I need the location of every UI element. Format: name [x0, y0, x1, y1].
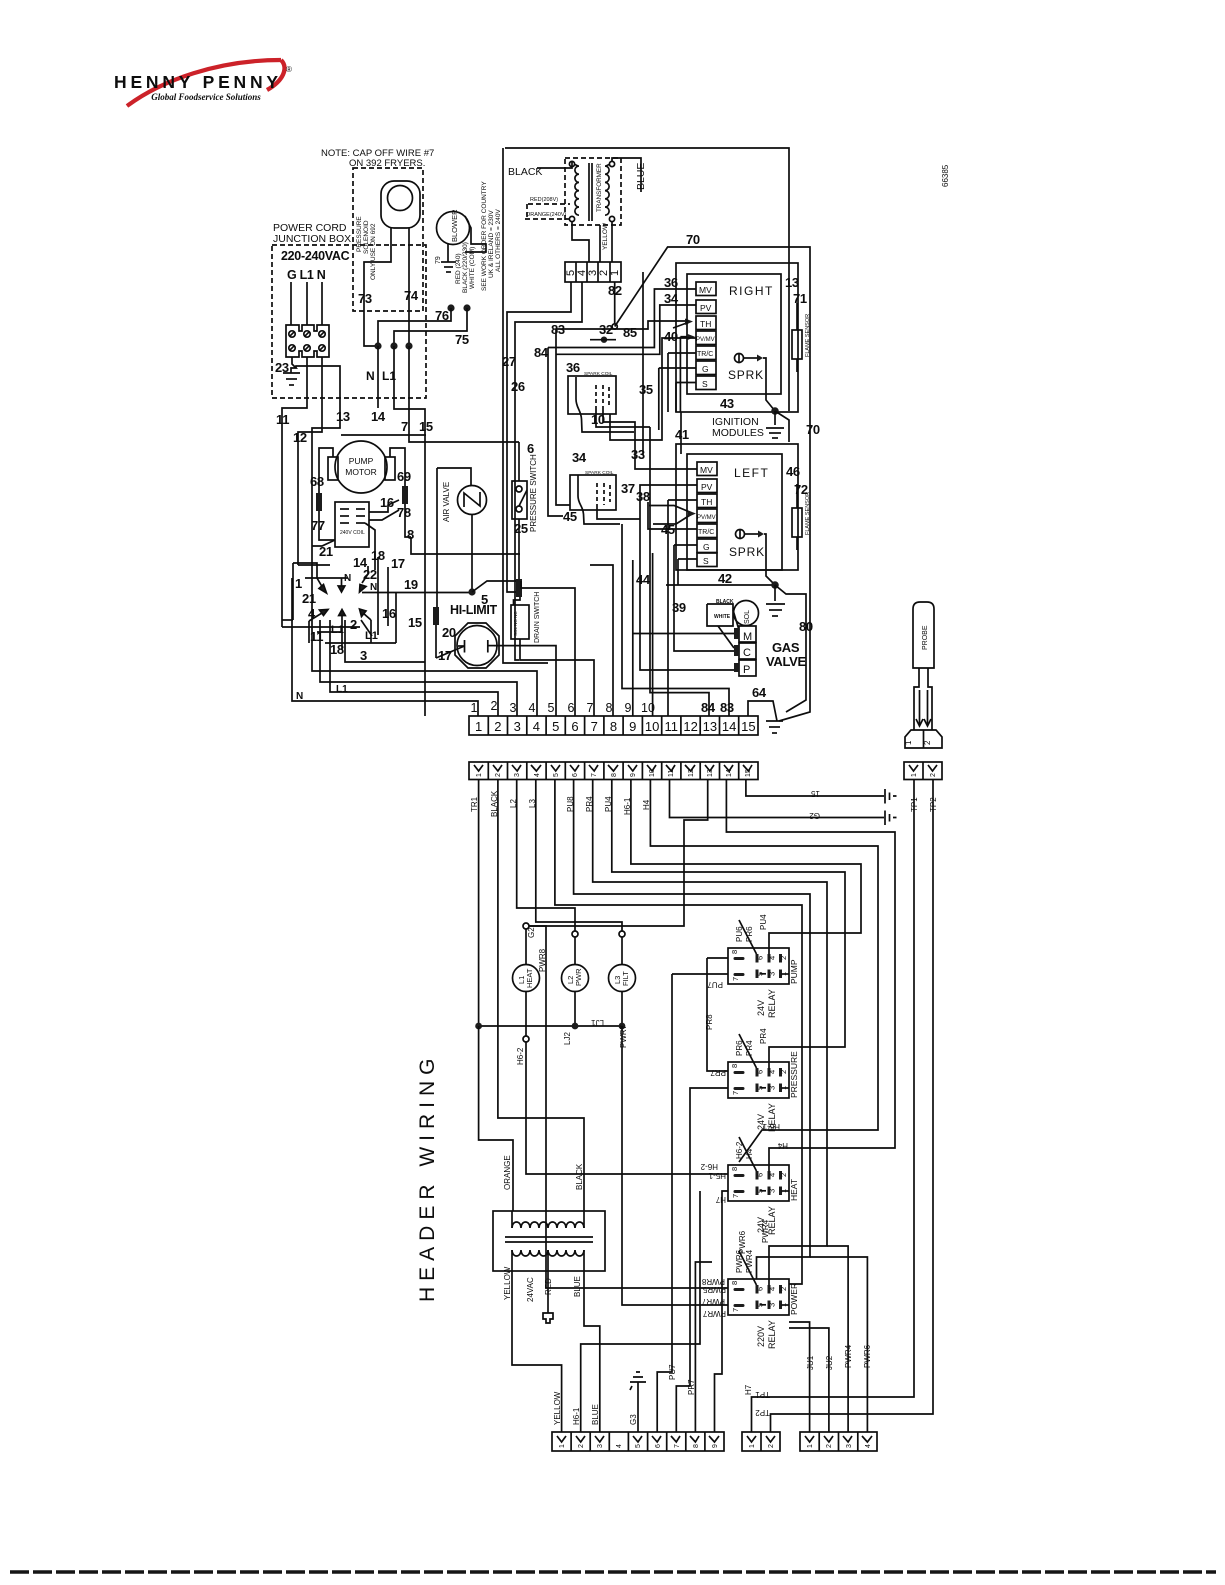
- svg-text:21: 21: [302, 591, 316, 606]
- svg-text:15: 15: [811, 789, 820, 798]
- svg-text:1: 1: [904, 740, 913, 745]
- wire number labels above strip: [471, 699, 655, 715]
- svg-text:2: 2: [779, 1173, 788, 1177]
- wire PWR7 down: [622, 1026, 728, 1305]
- svg-text:8: 8: [730, 1064, 739, 1068]
- svg-text:3: 3: [768, 1189, 777, 1193]
- svg-text:ORANGE(240V): ORANGE(240V): [526, 212, 567, 218]
- svg-text:BLOWER: BLOWER: [450, 209, 459, 242]
- probe P1: [913, 602, 934, 668]
- svg-text:HI-LIMIT: HI-LIMIT: [450, 603, 498, 617]
- svg-text:9: 9: [625, 701, 632, 715]
- ignition module LEFT U2: [687, 454, 782, 570]
- RED plug: [547, 1271, 549, 1313]
- svg-text:6: 6: [756, 1287, 765, 1291]
- wire N: [321, 282, 323, 325]
- bottom connector J2 1-9: [552, 1432, 724, 1451]
- svg-text:RELAY: RELAY: [767, 989, 777, 1018]
- svg-text:L1: L1: [365, 630, 378, 642]
- svg-text:78: 78: [397, 505, 411, 520]
- wire H6-2 down: [526, 1042, 728, 1174]
- svg-text:79: 79: [435, 256, 442, 264]
- svg-text:MV: MV: [700, 465, 713, 475]
- svg-text:RIGHT: RIGHT: [729, 284, 774, 298]
- svg-text:GAS: GAS: [772, 640, 800, 655]
- svg-text:7: 7: [587, 701, 594, 715]
- svg-text:RED(208V): RED(208V): [530, 197, 558, 203]
- flame sensor right: [792, 330, 802, 359]
- ignition module LEFT outer: [676, 444, 798, 570]
- svg-text:3: 3: [768, 1303, 777, 1307]
- svg-text:7: 7: [674, 1444, 681, 1448]
- svg-text:3: 3: [768, 972, 777, 976]
- svg-text:TP2: TP2: [755, 1408, 770, 1417]
- wire 15 ground: [746, 779, 884, 796]
- svg-text:73: 73: [358, 291, 372, 306]
- svg-text:6: 6: [756, 956, 765, 960]
- svg-text:2: 2: [779, 956, 788, 960]
- svg-text:N: N: [344, 573, 351, 584]
- svg-text:36: 36: [664, 275, 678, 290]
- svg-text:6: 6: [756, 1070, 765, 1074]
- svg-text:7: 7: [591, 773, 598, 777]
- gas valve solenoid SOL: [734, 601, 759, 626]
- svg-text:26: 26: [511, 379, 525, 394]
- svg-text:1: 1: [475, 719, 482, 734]
- svg-text:HEAT: HEAT: [789, 1179, 799, 1201]
- svg-text:RED (240): RED (240): [455, 253, 462, 284]
- svg-text:SOL: SOL: [744, 610, 751, 624]
- wire PR8 pump pin8 feed: [707, 957, 728, 959]
- wire L2: [517, 779, 575, 931]
- svg-text:4: 4: [768, 1070, 777, 1074]
- gas valve leads: [633, 633, 734, 635]
- U1 spark output: [735, 354, 744, 363]
- junction dots N L1: [374, 342, 381, 349]
- svg-text:12: 12: [688, 769, 695, 777]
- svg-text:66385: 66385: [941, 164, 950, 187]
- svg-text:13: 13: [785, 275, 799, 290]
- svg-text:18: 18: [330, 642, 344, 657]
- wire G2 dark: [529, 779, 708, 926]
- svg-text:36: 36: [566, 360, 580, 375]
- wire L1 down: [282, 357, 307, 627]
- contactor K2 contacts: [282, 557, 396, 650]
- JU connector 1-4: [800, 1432, 877, 1451]
- svg-text:69: 69: [397, 469, 411, 484]
- svg-text:4: 4: [529, 701, 536, 715]
- resistor 77: [319, 448, 333, 493]
- svg-text:84: 84: [701, 700, 716, 715]
- wire 20 resistor: [433, 607, 439, 625]
- svg-text:14: 14: [726, 769, 733, 777]
- G2 node: [523, 923, 529, 929]
- svg-text:20: 20: [442, 625, 456, 640]
- svg-text:PV: PV: [701, 482, 713, 492]
- svg-text:11: 11: [276, 412, 289, 427]
- wire 76: [447, 304, 454, 311]
- svg-text:PR4: PR4: [759, 1028, 768, 1044]
- relay PRESSURE K4: [728, 1062, 789, 1098]
- svg-text:YELLOW: YELLOW: [602, 222, 609, 250]
- svg-text:24VAC: 24VAC: [526, 1277, 535, 1302]
- svg-text:2: 2: [779, 1287, 788, 1291]
- svg-text:85: 85: [623, 325, 637, 340]
- svg-text:PRESSURE: PRESSURE: [789, 1051, 799, 1098]
- svg-text:SPRK: SPRK: [728, 368, 764, 382]
- wire 3 bus: [345, 620, 425, 662]
- wire G3 ground: [637, 1390, 639, 1432]
- wire N down: [298, 357, 322, 565]
- svg-text:1: 1: [911, 773, 918, 777]
- svg-text:3: 3: [768, 1086, 777, 1090]
- U1 terminal MV: [696, 282, 716, 296]
- svg-text:9: 9: [629, 719, 636, 734]
- svg-text:2: 2: [930, 773, 937, 777]
- wire PWR8 down: [529, 926, 546, 940]
- svg-text:43: 43: [720, 396, 734, 411]
- Henny Penny logo red swoosh: [127, 60, 281, 106]
- svg-text:H7: H7: [715, 1195, 726, 1204]
- svg-text:3: 3: [846, 1444, 853, 1448]
- svg-text:8: 8: [611, 773, 618, 777]
- svg-text:S: S: [703, 556, 709, 566]
- svg-text:3: 3: [514, 719, 521, 734]
- U1 terminal G: [696, 361, 716, 375]
- transformer secondary wires to strip: [572, 221, 589, 262]
- svg-text:PUMP: PUMP: [789, 959, 799, 984]
- transformer T1 dashed box: [565, 158, 621, 225]
- wire L1 col: [394, 346, 425, 716]
- wire PR4: [612, 779, 845, 1068]
- svg-text:MODULES: MODULES: [712, 427, 764, 439]
- svg-text:PUMP: PUMP: [349, 456, 374, 466]
- svg-text:SOL NO NC: SOL NO NC: [513, 611, 518, 636]
- svg-text:ONLY USE ON 692: ONLY USE ON 692: [370, 223, 377, 280]
- svg-text:FILT: FILT: [621, 971, 630, 986]
- svg-text:8: 8: [610, 719, 617, 734]
- svg-text:5: 5: [553, 773, 560, 777]
- svg-text:M: M: [743, 631, 752, 643]
- svg-text:7: 7: [591, 719, 598, 734]
- terminal strip TS2 5-4-3-2-1: [565, 262, 621, 282]
- svg-text:16: 16: [382, 606, 396, 621]
- svg-text:G: G: [702, 364, 709, 374]
- svg-text:LEFT: LEFT: [734, 466, 769, 480]
- pump motor M1: [335, 441, 387, 493]
- svg-text:TH: TH: [700, 319, 711, 329]
- svg-text:POWER: POWER: [789, 1283, 799, 1315]
- svg-text:17: 17: [438, 648, 452, 663]
- ground ignition right: [771, 407, 779, 415]
- wire H4: [726, 779, 895, 1171]
- svg-text:5: 5: [635, 1444, 642, 1448]
- wire TR1 down: [478, 779, 480, 1026]
- svg-text:YELLOW: YELLOW: [553, 1391, 562, 1425]
- air valve stem: [471, 515, 473, 593]
- svg-text:6: 6: [568, 701, 575, 715]
- svg-text:HEADER WIRING: HEADER WIRING: [416, 1052, 439, 1302]
- svg-text:RELAY: RELAY: [767, 1206, 777, 1235]
- svg-text:6: 6: [527, 441, 534, 456]
- TP1 TP2 wires: [752, 779, 915, 1432]
- svg-text:L1: L1: [331, 624, 344, 636]
- svg-text:N: N: [370, 582, 377, 593]
- svg-text:1: 1: [295, 576, 302, 591]
- svg-text:37: 37: [621, 481, 635, 496]
- bus 32: [548, 289, 696, 348]
- U2 terminal MV: [697, 462, 717, 476]
- svg-text:YELLOW: YELLOW: [503, 1266, 512, 1300]
- svg-text:10: 10: [649, 769, 656, 777]
- JU wires up: [789, 1322, 810, 1432]
- wire PU8 long: [555, 779, 802, 1284]
- wire TR1 to transformer ORANGE: [479, 1026, 513, 1211]
- air valve AV1: [458, 486, 487, 515]
- svg-text:4: 4: [768, 1173, 777, 1177]
- svg-text:PU7: PU7: [707, 980, 723, 989]
- U2 terminal PV: [697, 479, 717, 493]
- U2 terminal PV/MV: [697, 509, 717, 523]
- svg-text:TH: TH: [701, 497, 712, 507]
- U2 terminal S: [697, 553, 717, 567]
- svg-text:7: 7: [731, 977, 740, 981]
- wire 70 diagonal from strip: [615, 247, 810, 721]
- svg-text:2: 2: [578, 1444, 585, 1448]
- svg-text:LJ1: LJ1: [591, 1018, 604, 1027]
- svg-text:SPARK COIL: SPARK COIL: [585, 470, 614, 476]
- svg-text:TR/C: TR/C: [697, 351, 713, 358]
- U2 spark output: [736, 530, 745, 539]
- wire 74: [408, 228, 410, 346]
- power cord junction box: [272, 245, 426, 398]
- svg-text:3: 3: [510, 701, 517, 715]
- lamp L2 PWR: [574, 937, 576, 965]
- resistor 78: [390, 448, 405, 486]
- svg-text:BLACK: BLACK: [575, 1163, 584, 1190]
- wire L3: [536, 779, 622, 931]
- svg-text:LJ2: LJ2: [563, 1032, 572, 1045]
- svg-text:BLACK: BLACK: [716, 599, 734, 605]
- wire G: [290, 282, 292, 325]
- svg-text:24V: 24V: [756, 1114, 766, 1130]
- relay POWER K6: [728, 1279, 789, 1315]
- pressure solenoid PS1: [381, 181, 420, 228]
- wire G2 ground: [670, 779, 885, 818]
- svg-text:G L1 N: G L1 N: [287, 268, 326, 282]
- U1 terminal S: [696, 376, 716, 390]
- air valve bracket: [437, 468, 471, 486]
- gas valve GV1 terminals: [739, 626, 756, 642]
- wire BLUE: [612, 158, 641, 192]
- svg-text:8: 8: [730, 950, 739, 954]
- svg-text:PU4: PU4: [759, 914, 768, 930]
- svg-text:N: N: [296, 691, 303, 702]
- bus 85: [556, 321, 688, 329]
- svg-text:220V: 220V: [756, 1326, 766, 1347]
- svg-text:2: 2: [826, 1444, 833, 1448]
- ground gas valve: [766, 721, 783, 733]
- svg-text:PV/MV: PV/MV: [697, 515, 716, 521]
- svg-text:BLACK (220/230): BLACK (220/230): [462, 242, 469, 293]
- svg-text:38: 38: [636, 489, 650, 504]
- svg-text:G2: G2: [527, 927, 536, 938]
- wire PR7: [676, 1088, 728, 1432]
- svg-text:6: 6: [756, 1173, 765, 1177]
- svg-text:7: 7: [731, 1091, 740, 1095]
- wire G right: [296, 366, 340, 557]
- svg-text:27: 27: [502, 354, 516, 369]
- svg-text:TRANSFORMER: TRANSFORMER: [596, 163, 603, 212]
- relay PUMP K3: [728, 948, 789, 984]
- svg-text:1: 1: [471, 701, 478, 715]
- wire BLACK down: [498, 779, 584, 1211]
- svg-text:10: 10: [591, 412, 605, 427]
- svg-text:FLAME SENSOR: FLAME SENSOR: [805, 314, 811, 357]
- svg-text:G2: G2: [809, 811, 820, 820]
- svg-text:5: 5: [552, 719, 559, 734]
- svg-text:ALL OTHERS = 240V: ALL OTHERS = 240V: [495, 209, 502, 272]
- transformer T1: [569, 161, 614, 221]
- wire H6-1: [650, 779, 878, 1162]
- svg-text:14: 14: [722, 719, 736, 734]
- svg-text:2: 2: [491, 699, 498, 713]
- pressure solenoid dashed box: [353, 168, 423, 311]
- heavy bus LJ1: [479, 1025, 622, 1027]
- relay HEAT K5: [728, 1165, 789, 1201]
- svg-text:G: G: [703, 542, 710, 552]
- svg-text:45: 45: [563, 509, 577, 524]
- svg-text:220-240VAC: 220-240VAC: [281, 249, 350, 263]
- svg-text:C: C: [743, 647, 751, 659]
- svg-text:RELAY: RELAY: [767, 1320, 777, 1349]
- node L2: [572, 931, 578, 937]
- coil box wires: [369, 500, 399, 512]
- svg-text:PWR7: PWR7: [619, 1024, 628, 1048]
- svg-text:8: 8: [693, 1444, 700, 1448]
- svg-text:80: 80: [799, 619, 813, 634]
- svg-text:10: 10: [641, 701, 655, 715]
- svg-text:VALVE: VALVE: [766, 654, 807, 669]
- svg-text:H4: H4: [777, 1141, 788, 1150]
- svg-text:H6-1: H6-1: [572, 1407, 581, 1425]
- TP 2-pin bottom connector: [742, 1432, 780, 1451]
- svg-text:77: 77: [311, 518, 325, 533]
- gas valve wire bundle: [707, 604, 733, 626]
- U1 terminal TR/C: [696, 346, 716, 360]
- svg-text:34: 34: [572, 450, 587, 465]
- svg-text:2: 2: [923, 740, 932, 745]
- svg-text:68: 68: [310, 474, 324, 489]
- svg-text:FLAME SENSOR: FLAME SENSOR: [805, 492, 811, 535]
- wire PU7 into pump pin7: [672, 973, 728, 975]
- wire 83: [622, 524, 729, 716]
- svg-text:240V COIL: 240V COIL: [340, 530, 365, 536]
- svg-text:76: 76: [435, 308, 449, 323]
- wire 73: [364, 228, 391, 346]
- svg-text:PROBE: PROBE: [922, 625, 929, 650]
- U2 spark return wire: [764, 534, 775, 585]
- svg-text:19: 19: [404, 577, 418, 592]
- top right enclosing box: [505, 148, 789, 411]
- svg-text:BLUE: BLUE: [591, 1404, 600, 1425]
- svg-text:3: 3: [514, 773, 521, 777]
- svg-text:70: 70: [806, 422, 820, 437]
- U2 terminal TH: [697, 494, 717, 508]
- svg-text:PWR7: PWR7: [702, 1309, 726, 1318]
- svg-text:14: 14: [371, 409, 386, 424]
- terminal strip TS1 1-15: [469, 716, 758, 735]
- svg-text:41: 41: [675, 427, 689, 442]
- U2 terminal TR/C: [697, 524, 717, 538]
- svg-text:3: 3: [597, 1444, 604, 1448]
- node L3: [619, 931, 625, 937]
- svg-text:34: 34: [664, 291, 679, 306]
- wires from spark coils to modules: [642, 272, 644, 455]
- wire H6-1 bottom: [581, 1191, 700, 1432]
- svg-text:13: 13: [703, 719, 717, 734]
- svg-text:1: 1: [476, 773, 483, 777]
- wire PWR4: [593, 779, 827, 1285]
- svg-text:WHITE (COM): WHITE (COM): [469, 247, 476, 289]
- svg-text:Global Foodservice Solutions: Global Foodservice Solutions: [151, 92, 261, 102]
- svg-text:BLUE: BLUE: [573, 1276, 582, 1297]
- svg-text:®: ®: [286, 65, 292, 74]
- svg-text:75: 75: [455, 332, 469, 347]
- ignition module RIGHT U1: [687, 274, 781, 394]
- svg-text:1: 1: [807, 1444, 814, 1448]
- svg-text:N: N: [366, 369, 375, 383]
- wire H7: [715, 1191, 729, 1432]
- svg-text:12: 12: [293, 430, 307, 445]
- svg-text:TR/C: TR/C: [698, 529, 714, 536]
- bus 19: [362, 592, 470, 594]
- lamp L1 HEAT: [525, 929, 527, 965]
- svg-text:SPRK: SPRK: [729, 545, 765, 559]
- wire 75: [463, 304, 470, 311]
- svg-text:7: 7: [401, 419, 408, 434]
- svg-text:JUNCTION BOX: JUNCTION BOX: [273, 233, 351, 245]
- svg-text:SPARK COIL: SPARK COIL: [584, 371, 613, 377]
- svg-text:PWR: PWR: [574, 968, 583, 986]
- svg-text:PR8: PR8: [705, 1014, 714, 1030]
- svg-text:4: 4: [865, 1444, 872, 1448]
- ignition module RIGHT outer: [676, 263, 798, 412]
- svg-text:AIR VALVE: AIR VALVE: [442, 482, 451, 522]
- svg-text:46: 46: [786, 464, 800, 479]
- spark coil lower SC2: [570, 475, 616, 510]
- svg-text:13: 13: [707, 769, 714, 777]
- wire PU4: [631, 779, 861, 954]
- header connector J1 pins 1-15: [469, 762, 758, 780]
- svg-text:6: 6: [572, 773, 579, 777]
- svg-text:PV/MV: PV/MV: [696, 337, 715, 343]
- pump relay coil box K1: [335, 502, 369, 547]
- bottom dashed edge line: [10, 1570, 1216, 1574]
- svg-text:4: 4: [616, 1444, 623, 1448]
- wire PU7: [657, 974, 672, 1432]
- svg-text:5: 5: [548, 701, 555, 715]
- svg-text:2: 2: [768, 1444, 775, 1448]
- svg-text:35: 35: [639, 382, 653, 397]
- svg-text:S: S: [702, 379, 708, 389]
- svg-text:44: 44: [636, 572, 651, 587]
- wire BLACK to transformer: [537, 162, 572, 168]
- svg-text:24V: 24V: [756, 1000, 766, 1016]
- ground blower: [441, 262, 456, 272]
- svg-text:PWR5: PWR5: [702, 1285, 726, 1294]
- wire 26: [515, 282, 582, 660]
